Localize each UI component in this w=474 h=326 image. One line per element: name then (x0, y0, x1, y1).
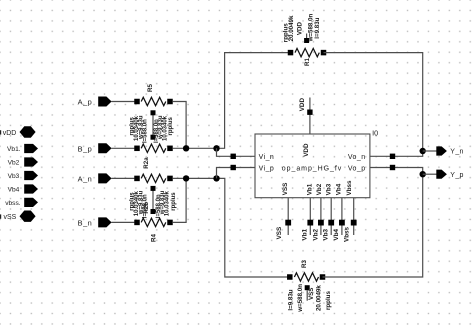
wire (306, 290, 308, 301)
svg-text:20.0049k: 20.0049k (288, 15, 295, 41)
wire (309, 198, 311, 235)
svg-text:l=9.83u: l=9.83u (314, 17, 321, 38)
pin vSS (0, 214, 1, 218)
resistor R5 (134, 84, 173, 106)
wire (287, 198, 289, 235)
pin B_n (78, 217, 112, 227)
svg-text:Vi_n: Vi_n (259, 154, 275, 161)
node body R1 (304, 38, 309, 43)
svg-text:VDD: VDD (299, 98, 306, 112)
svg-text:VDD: VDD (303, 143, 310, 157)
pin Y_p (436, 170, 464, 179)
label R4 params (156, 190, 177, 218)
svg-text:R3: R3 (301, 260, 308, 268)
wire (330, 198, 332, 235)
power Vb3 tap (323, 220, 335, 241)
svg-text:Vb1: Vb1 (302, 228, 309, 240)
pin B_p (78, 143, 112, 153)
wire (173, 178, 186, 222)
svg-text:Vo_n: Vo_n (348, 154, 366, 161)
wire (323, 174, 423, 277)
svg-text:A_n: A_n (78, 175, 93, 184)
wire (309, 98, 311, 135)
svg-text:w=588.0n: w=588.0n (297, 284, 304, 313)
svg-text:l=588.0n: l=588.0n (143, 194, 149, 218)
svg-text:VDD: VDD (297, 22, 304, 36)
svg-text:Vb3: Vb3 (326, 183, 333, 195)
power Vb4 tap (333, 220, 345, 241)
svg-text:Vo_p: Vo_p (348, 165, 366, 172)
node (213, 145, 219, 151)
svg-text:Vbss: Vbss (346, 180, 353, 196)
svg-text:vDD: vDD (3, 130, 16, 137)
pin Vb4 (8, 184, 38, 193)
node Vo_n square (390, 154, 395, 159)
node Vi_p square (231, 165, 236, 170)
node (183, 175, 189, 181)
svg-text:R5: R5 (147, 84, 154, 92)
power VSS tap (276, 220, 291, 240)
svg-text:Vb4: Vb4 (8, 187, 20, 194)
svg-text:op_amp_HG_fv: op_amp_HG_fv (282, 165, 342, 172)
svg-text:Vb2: Vb2 (312, 228, 319, 240)
node (183, 145, 189, 151)
svg-text:Vb2: Vb2 (316, 183, 323, 195)
resistor R3 (287, 260, 325, 282)
svg-text:vbss.: vbss. (5, 200, 21, 207)
svg-text:l=588.0n: l=588.0n (143, 119, 149, 143)
power Vb2 tap (312, 220, 324, 241)
svg-text:Vbss: Vbss (343, 226, 350, 242)
svg-text:Vb1.: Vb1. (7, 146, 21, 153)
node body R2b/R4 (151, 186, 156, 191)
svg-text:R4: R4 (151, 234, 158, 242)
svg-text:rpplus: rpplus (168, 117, 174, 136)
power Vb1 tap (302, 220, 314, 241)
label R1 params (282, 13, 320, 42)
pin A_n (78, 173, 112, 183)
wire (423, 173, 437, 175)
wire (353, 198, 355, 235)
svg-text:I0: I0 (372, 128, 378, 137)
svg-text:Y_n: Y_n (450, 149, 464, 156)
power Vbss tap (343, 220, 356, 242)
op-amp I0 op_amp_HG_fv (255, 128, 378, 197)
pin Vbss (5, 198, 38, 207)
wire (320, 198, 322, 235)
pin Y_n (436, 146, 464, 155)
svg-text:Vb1: Vb1 (307, 183, 314, 195)
wire (217, 148, 256, 156)
wire (152, 113, 154, 137)
svg-text:VSS: VSS (276, 227, 283, 240)
pin A_p (78, 97, 112, 107)
resistor R1 (288, 48, 327, 66)
resistor R4 (134, 218, 173, 242)
wire (423, 150, 437, 152)
svg-text:VSS: VSS (282, 183, 289, 196)
pin Vb1 (7, 144, 38, 153)
node body R5/R2a (151, 110, 156, 115)
svg-text:rpplus: rpplus (171, 192, 177, 211)
svg-text:VSS: VSS (308, 288, 315, 300)
wire (217, 168, 256, 179)
wire (173, 147, 217, 149)
wire (341, 198, 343, 235)
node (420, 148, 426, 154)
wire (152, 188, 154, 211)
svg-text:B_n: B_n (78, 219, 93, 228)
wire (111, 101, 134, 103)
power VDD tap (299, 98, 313, 115)
label R3 params (287, 284, 332, 313)
wire (111, 147, 134, 149)
wire (370, 168, 423, 175)
pin vDD (0, 130, 1, 134)
wire (173, 102, 186, 149)
label R5 params (130, 115, 149, 143)
svg-text:Vb4: Vb4 (333, 228, 340, 240)
svg-text:Vb3: Vb3 (8, 173, 20, 180)
node (213, 175, 219, 181)
svg-text:l=9.83u: l=9.83u (287, 289, 294, 310)
wire (111, 221, 134, 223)
svg-text:Vb4: Vb4 (335, 183, 342, 195)
svg-text:10.0340k: 10.0340k (164, 191, 170, 217)
label R2a params (154, 115, 174, 143)
label R2b params (130, 190, 149, 218)
wire (111, 177, 134, 179)
pin Vb2 (8, 157, 38, 166)
node body R3 (305, 285, 310, 290)
svg-text:Vb3: Vb3 (323, 228, 330, 240)
svg-text:R1: R1 (304, 58, 311, 66)
svg-text:Vb2: Vb2 (8, 160, 20, 167)
wire (217, 178, 290, 277)
wire (173, 177, 217, 179)
pin Vb3 (8, 171, 38, 180)
svg-text:Y_p: Y_p (450, 172, 464, 179)
wire (324, 53, 423, 151)
wire (306, 34, 308, 39)
node (420, 171, 426, 177)
svg-text:Vi_p: Vi_p (259, 165, 275, 172)
wire (217, 53, 291, 149)
svg-text:20.0049k: 20.0049k (315, 285, 322, 311)
svg-text:B_p: B_p (78, 144, 93, 153)
node Vo_p square (390, 165, 395, 170)
svg-text:A_p: A_p (78, 98, 93, 107)
resistor R2a (134, 144, 173, 169)
node Vi_n square (231, 154, 236, 159)
svg-text:vSS: vSS (4, 214, 17, 221)
svg-text:R2a: R2a (143, 157, 150, 169)
svg-text:rpplus: rpplus (325, 291, 332, 310)
resistor R2b (134, 174, 173, 213)
wire (370, 151, 423, 156)
